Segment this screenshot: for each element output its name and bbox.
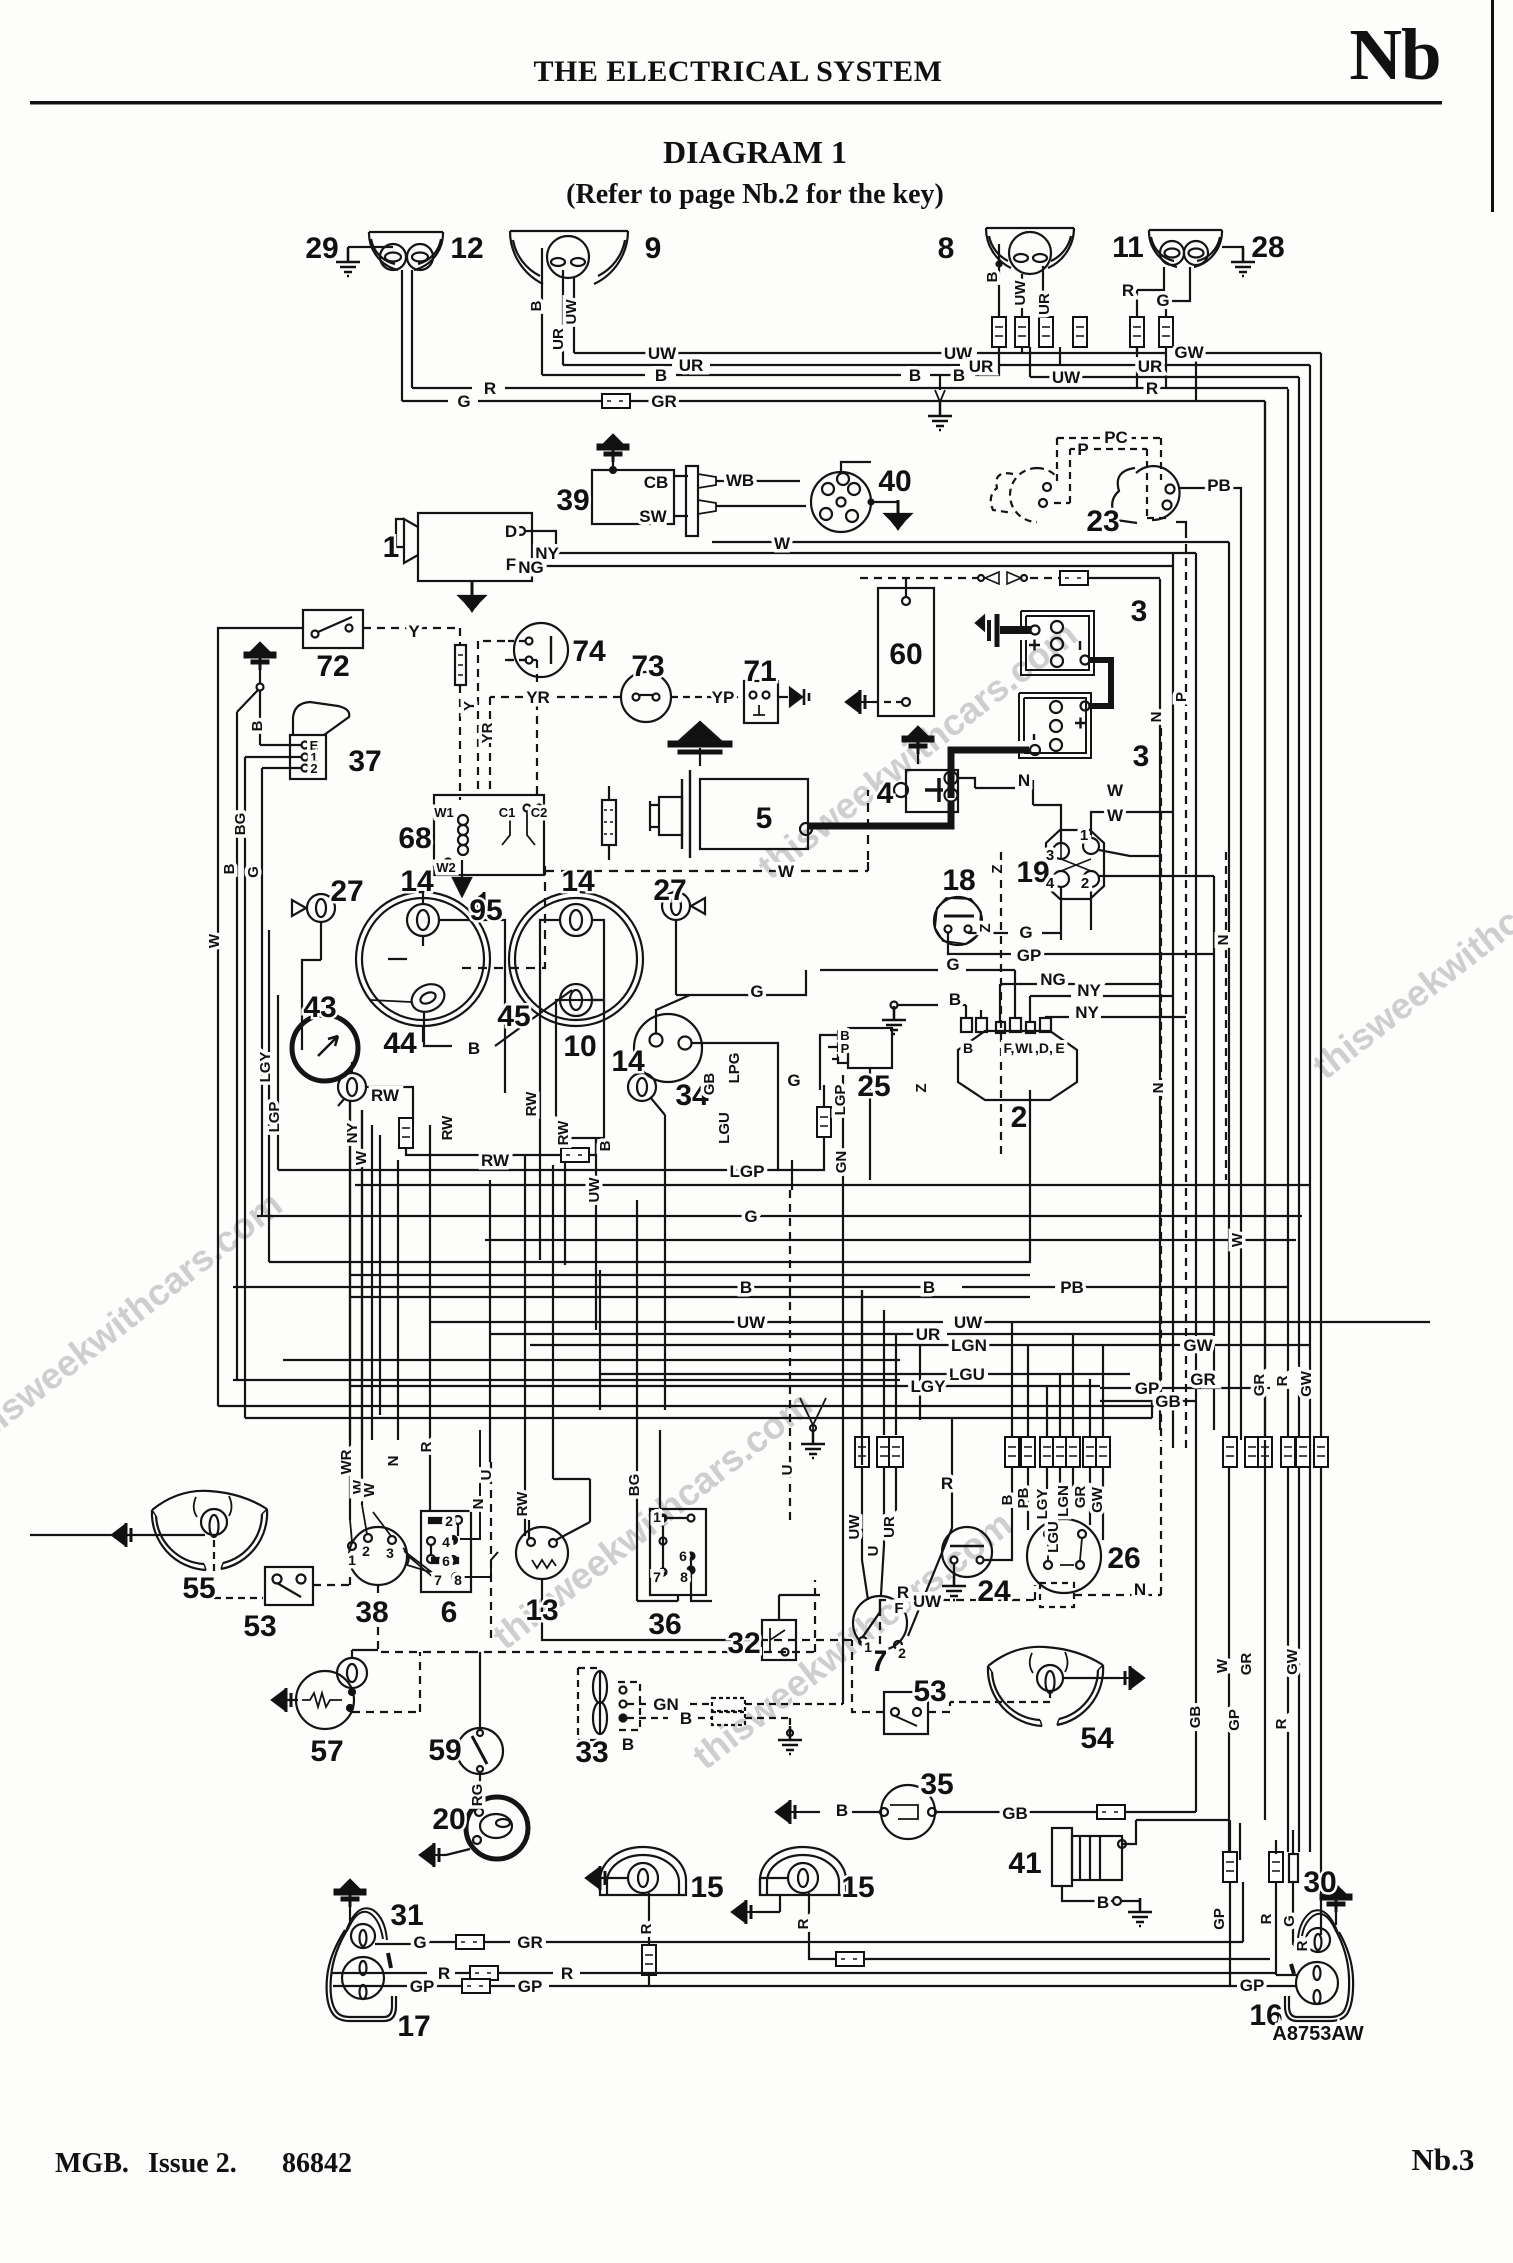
svg-text:71: 71 [743,655,776,688]
svg-text:Z: Z [977,923,994,932]
svg-text:44: 44 [383,1027,417,1060]
svg-text:7: 7 [871,1645,888,1678]
svg-text:RG: RG [469,1784,486,1807]
svg-text:UW: UW [1052,368,1081,387]
svg-text:THE ELECTRICAL SYSTEM: THE ELECTRICAL SYSTEM [534,55,943,88]
svg-text:G: G [1019,923,1032,942]
svg-text:thisweekwithcars.com: thisweekwithcars.com [1305,813,1513,1087]
svg-text:D: D [505,522,517,541]
svg-text:R: R [1258,1913,1275,1924]
svg-text:18: 18 [942,864,975,897]
svg-text:UW: UW [846,1514,863,1540]
svg-text:U: U [779,1465,796,1476]
svg-text:GP: GP [1211,1908,1228,1930]
svg-text:P: P [841,1041,850,1056]
svg-text:P: P [1173,692,1190,702]
svg-text:G: G [1281,1915,1298,1927]
svg-text:GR: GR [1190,1370,1216,1389]
svg-text:R: R [438,1964,450,1983]
svg-text:B: B [622,1735,634,1754]
svg-text:RW: RW [481,1151,510,1170]
svg-text:38: 38 [355,1596,388,1629]
svg-text:7: 7 [434,1572,442,1588]
svg-text:2: 2 [898,1645,906,1661]
svg-text:PC: PC [1104,428,1128,447]
svg-text:NY: NY [1075,1003,1099,1022]
svg-text:8: 8 [454,1572,462,1588]
svg-text:U: U [478,1470,495,1481]
svg-text:8: 8 [938,232,955,265]
svg-text:thisweekwithcars.com: thisweekwithcars.com [0,1183,290,1457]
svg-text:GR: GR [651,392,677,411]
svg-text:B: B [680,1709,692,1728]
svg-text:6: 6 [679,1548,687,1564]
svg-text:45: 45 [497,1000,530,1033]
svg-text:40: 40 [878,465,911,498]
svg-text:1: 1 [383,531,400,564]
svg-text:GR: GR [1251,1374,1268,1397]
svg-text:3: 3 [1131,595,1148,628]
svg-text:43: 43 [303,991,336,1024]
svg-text:F: F [894,1600,903,1617]
svg-text:B: B [528,300,545,311]
svg-text:GR: GR [517,1933,543,1952]
svg-text:5: 5 [756,802,773,835]
svg-text:U: U [865,1546,882,1557]
svg-text:W: W [778,862,795,881]
svg-text:Nb.3: Nb.3 [1412,2142,1475,2177]
svg-text:UR: UR [969,357,994,376]
svg-text:32: 32 [727,1627,760,1660]
svg-text:54: 54 [1080,1722,1114,1755]
svg-text:WL: WL [1015,1040,1037,1056]
svg-text:R: R [561,1964,573,1983]
svg-text:2: 2 [362,1543,370,1559]
svg-text:N: N [1134,1580,1146,1599]
svg-text:F,: F, [1004,1040,1015,1056]
svg-text:BG: BG [232,813,249,836]
svg-text:LGP: LGP [832,1085,849,1116]
svg-text:14: 14 [611,1045,645,1078]
svg-text:72: 72 [316,650,349,683]
svg-text:29: 29 [305,232,338,265]
svg-text:N: N [1018,771,1030,790]
svg-text:YR: YR [479,722,496,743]
svg-text:57: 57 [310,1735,343,1768]
svg-text:W: W [1229,1232,1246,1247]
svg-text:B: B [836,1801,848,1820]
svg-text:LGY: LGY [1034,1489,1051,1520]
svg-text:Nb: Nb [1349,14,1440,95]
svg-text:Y: Y [461,701,478,711]
svg-text:YR: YR [526,688,550,707]
svg-text:37: 37 [348,745,381,778]
svg-text:LGU: LGU [716,1112,733,1144]
svg-text:27: 27 [330,875,363,908]
svg-text:2: 2 [1081,875,1089,892]
svg-text:W: W [353,1150,370,1165]
svg-text:G: G [750,982,763,1001]
svg-text:A8753AW: A8753AW [1272,2023,1363,2045]
svg-text:LGN: LGN [1055,1485,1072,1517]
svg-text:Issue 2.: Issue 2. [148,2148,237,2179]
svg-text:PB: PB [1207,476,1231,495]
svg-text:LGY: LGY [911,1377,947,1396]
svg-text:,D,: ,D, [1035,1040,1053,1056]
svg-text:GB: GB [1155,1392,1181,1411]
svg-text:68: 68 [398,822,431,855]
svg-text:27: 27 [653,874,686,907]
svg-text:RW: RW [439,1115,456,1141]
svg-text:YP: YP [712,688,735,707]
svg-text:B: B [1097,1893,1109,1912]
svg-text:LGU: LGU [1045,1521,1062,1553]
svg-text:W1: W1 [434,805,454,820]
svg-text:(Refer to page Nb.2 for the ke: (Refer to page Nb.2 for the key) [566,179,944,210]
svg-text:UW: UW [913,1592,942,1611]
svg-text:LPG: LPG [726,1053,743,1084]
svg-text:UR: UR [550,328,567,350]
svg-text:1: 1 [653,1509,661,1525]
svg-text:14: 14 [561,865,595,898]
svg-text:33: 33 [575,1736,608,1769]
svg-text:1: 1 [864,1639,872,1655]
svg-text:25: 25 [857,1070,890,1103]
svg-text:BG: BG [626,1474,643,1497]
svg-text:GN: GN [653,1695,679,1714]
svg-text:4: 4 [442,1534,450,1550]
svg-text:GB: GB [701,1073,718,1096]
svg-text:GW: GW [1089,1486,1106,1513]
svg-text:LGP: LGP [730,1162,765,1181]
svg-text:39: 39 [556,484,589,517]
svg-text:GB: GB [1002,1804,1028,1823]
svg-text:B: B [655,366,667,385]
svg-text:PB: PB [1015,1487,1032,1508]
svg-text:WR: WR [338,1449,355,1474]
svg-text:WB: WB [726,471,754,490]
svg-text:31: 31 [390,1899,423,1932]
svg-text:3: 3 [1133,740,1150,773]
svg-text:14: 14 [400,865,434,898]
svg-text:W: W [361,1482,378,1497]
svg-text:UR: UR [1036,293,1053,315]
svg-text:N: N [1150,1083,1167,1094]
svg-text:9: 9 [645,232,662,265]
svg-text:86842: 86842 [282,2148,352,2179]
svg-text:W: W [1214,1658,1231,1673]
svg-text:B: B [249,720,266,731]
svg-text:RW: RW [371,1086,400,1105]
svg-text:MGB.: MGB. [55,2148,129,2179]
svg-text:GR: GR [1072,1486,1089,1509]
svg-text:GP: GP [1226,1709,1243,1731]
svg-text:UR: UR [1138,357,1163,376]
svg-text:GP: GP [1017,946,1042,965]
svg-text:4: 4 [877,777,894,810]
svg-text:B: B [999,1494,1016,1505]
svg-text:RW: RW [523,1091,540,1117]
svg-text:15: 15 [841,1871,874,1904]
svg-text:R: R [1122,281,1134,300]
svg-text:73: 73 [631,650,664,683]
svg-text:13: 13 [525,1594,558,1627]
svg-text:19: 19 [1016,856,1049,889]
svg-text:35: 35 [920,1768,953,1801]
svg-text:60: 60 [889,638,922,671]
svg-text:6: 6 [441,1596,458,1629]
svg-text:59: 59 [428,1734,461,1767]
svg-text:3: 3 [1046,847,1054,864]
svg-text:Y: Y [408,622,420,641]
svg-text:R: R [418,1441,435,1452]
svg-text:GW: GW [1174,343,1204,362]
svg-text:23: 23 [1086,505,1119,538]
svg-text:G: G [744,1207,757,1226]
svg-text:B: B [949,990,961,1009]
svg-text:UW: UW [648,344,677,363]
svg-text:UR: UR [679,356,704,375]
svg-text:G: G [457,392,470,411]
svg-text:R: R [897,1583,909,1602]
svg-text:1: 1 [1080,827,1088,844]
svg-text:B: B [923,1278,935,1297]
svg-text:R: R [1294,1940,1311,1951]
svg-text:P: P [1077,440,1088,459]
svg-text:GW: GW [1284,1648,1301,1675]
svg-text:53: 53 [913,1675,946,1708]
svg-text:UW: UW [737,1313,766,1332]
svg-text:G: G [245,866,262,878]
svg-text:24: 24 [977,1575,1011,1608]
svg-text:UW: UW [954,1313,983,1332]
svg-text:W2: W2 [436,860,456,875]
svg-text:G: G [413,1933,426,1952]
svg-text:E: E [1055,1040,1064,1056]
svg-text:53: 53 [243,1610,276,1643]
svg-text:2: 2 [310,761,317,776]
svg-text:4: 4 [1046,875,1055,892]
svg-text:UW: UW [586,1177,603,1203]
svg-text:UW: UW [563,299,580,325]
svg-text:R: R [1274,1375,1291,1386]
svg-text:GR: GR [1238,1653,1255,1676]
svg-text:GP: GP [410,1977,435,1996]
svg-text:B: B [468,1039,480,1058]
svg-text:DIAGRAM 1: DIAGRAM 1 [663,134,847,170]
svg-text:UR: UR [881,1516,898,1538]
svg-text:GB: GB [1187,1706,1204,1729]
svg-text:W: W [1107,806,1124,825]
svg-text:36: 36 [648,1608,681,1641]
svg-text:GP: GP [1240,1976,1265,1995]
svg-text:RW: RW [514,1491,531,1517]
svg-text:RW: RW [555,1120,572,1146]
svg-text:B: B [909,366,921,385]
svg-text:95: 95 [469,894,502,927]
svg-text:W: W [1107,781,1124,800]
svg-text:LGU: LGU [949,1365,985,1384]
svg-text:30: 30 [1303,1866,1336,1899]
svg-text:2: 2 [1011,1101,1028,1134]
svg-text:11: 11 [1112,231,1144,264]
svg-text:UW: UW [1012,280,1029,306]
svg-text:SW: SW [639,507,667,526]
svg-text:N: N [385,1456,402,1467]
svg-text:R: R [1273,1718,1290,1729]
svg-text:74: 74 [572,635,606,668]
svg-text:20: 20 [432,1803,465,1836]
svg-text:N: N [1215,935,1232,946]
svg-text:55: 55 [182,1572,215,1605]
svg-text:NG: NG [1040,970,1066,989]
svg-text:LGY: LGY [257,1052,274,1083]
svg-text:R: R [484,379,496,398]
svg-text:LGN: LGN [951,1336,987,1355]
svg-text:F: F [506,555,516,574]
svg-text:Z: Z [989,864,1006,873]
svg-text:R: R [1146,379,1158,398]
svg-text:GW: GW [1298,1370,1315,1397]
svg-text:N: N [1148,712,1165,723]
svg-text:G: G [946,955,959,974]
svg-text:G: G [787,1071,800,1090]
svg-text:7: 7 [653,1569,661,1585]
svg-text:B: B [963,1040,973,1056]
svg-text:W: W [774,534,791,553]
svg-text:CB: CB [644,473,669,492]
svg-text:Z: Z [913,1083,930,1092]
svg-text:1: 1 [348,1552,356,1568]
svg-text:B: B [953,366,965,385]
svg-text:B: B [221,863,238,874]
svg-text:3: 3 [386,1545,394,1561]
svg-text:2: 2 [445,1513,453,1529]
svg-text:GW: GW [1183,1336,1213,1355]
svg-text:GP: GP [518,1977,543,1996]
svg-text:R: R [795,1918,812,1929]
svg-text:26: 26 [1107,1542,1140,1575]
svg-text:C2: C2 [531,805,548,820]
svg-text:15: 15 [690,1871,723,1904]
svg-text:LGP: LGP [266,1102,283,1133]
svg-text:R: R [638,1923,655,1934]
svg-text:17: 17 [397,2010,430,2043]
svg-text:B: B [740,1278,752,1297]
svg-text:10: 10 [563,1030,596,1063]
svg-text:6: 6 [442,1553,450,1569]
svg-text:NY: NY [1077,981,1101,1000]
svg-text:NG: NG [518,558,544,577]
svg-text:41: 41 [1008,1847,1041,1880]
svg-text:W: W [206,933,223,948]
svg-text:8: 8 [680,1569,688,1585]
svg-text:12: 12 [450,232,483,265]
svg-text:GN: GN [833,1151,850,1174]
svg-text:G: G [1156,291,1169,310]
svg-text:B: B [597,1140,614,1151]
svg-text:R: R [941,1474,953,1493]
svg-text:PB: PB [1060,1278,1084,1297]
svg-text:NY: NY [344,1123,361,1144]
svg-text:N: N [470,1499,487,1510]
svg-text:UR: UR [916,1325,941,1344]
svg-text:C1: C1 [499,805,516,820]
svg-text:28: 28 [1251,231,1284,264]
svg-text:B: B [984,271,1001,282]
